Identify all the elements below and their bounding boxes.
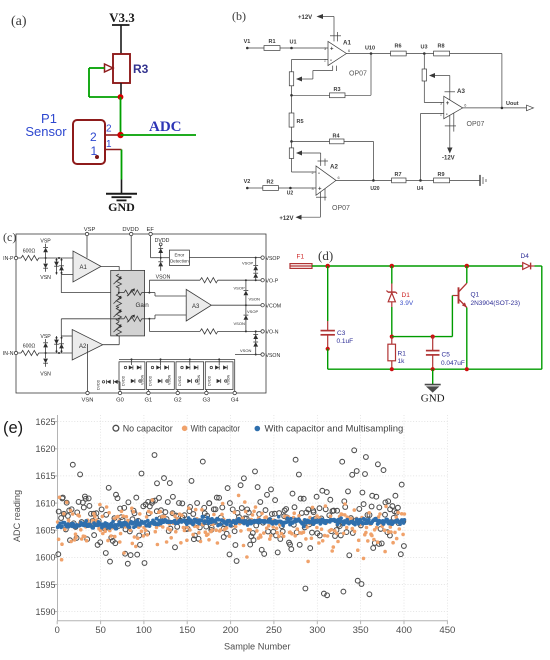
- error detection diode lower: [156, 258, 171, 281]
- wire A1 output into gain block: [101, 266, 119, 274]
- junction Q1 collector top: [465, 264, 470, 269]
- wire A2 inverting input: [292, 171, 317, 173]
- series: No capacitor (gray open circles): [56, 448, 406, 598]
- ground GND: [106, 194, 137, 214]
- svg-text:Error: Error: [175, 252, 185, 257]
- svg-text:VSN: VSN: [40, 275, 51, 281]
- svg-text:C3: C3: [337, 330, 346, 337]
- resistor R6: [391, 44, 407, 56]
- A3 power stubs to -12V: [442, 113, 456, 162]
- wire: [247, 47, 264, 49]
- wire VSP to A1: [86, 236, 88, 258]
- ESD cell box G1: [119, 359, 145, 389]
- wiper arrow of R3: [105, 64, 114, 72]
- clamp diodes VO-N to VSON: [240, 331, 258, 355]
- output Uout: [463, 101, 534, 111]
- junction node below R3: [118, 94, 124, 100]
- wire pin1 to ground: [121, 150, 123, 194]
- gain ladder resistors: [114, 274, 122, 336]
- feedback resistor R3: [290, 54, 371, 98]
- svg-text:U2: U2: [287, 191, 294, 197]
- wire A3 output to VCOM: [211, 304, 261, 306]
- svg-text:2N3904(SOT-23): 2N3904(SOT-23): [471, 300, 521, 307]
- svg-text:With capacitor and Multisampli: With capacitor and Multisampling: [265, 423, 404, 433]
- input V1: [244, 39, 251, 49]
- pin DVDD top: [122, 227, 138, 236]
- junction C3 top: [325, 264, 330, 269]
- capacitor C5: [426, 337, 465, 372]
- svg-text:2: 2: [324, 59, 326, 63]
- svg-text:G2: G2: [174, 398, 182, 404]
- svg-text:-: -: [330, 58, 332, 64]
- node U3: [420, 45, 427, 55]
- wire junction to ADC node: [120, 97, 122, 135]
- gain tap resistor upper: [119, 288, 150, 296]
- op-amp A3: [440, 88, 485, 128]
- svg-text:+12V: +12V: [279, 216, 293, 222]
- svg-text:VO-N: VO-N: [266, 330, 279, 336]
- node ADC: [117, 132, 123, 138]
- A2 power stubs to +12V: [279, 189, 326, 222]
- svg-text:ADC: ADC: [149, 119, 182, 135]
- svg-text:2: 2: [312, 171, 314, 175]
- error detection diode upper: [158, 248, 163, 258]
- VSOP rail: [189, 257, 261, 259]
- svg-text:(d): (d): [318, 248, 333, 263]
- svg-text:V2: V2: [244, 179, 251, 185]
- pin IN-N: [3, 351, 18, 357]
- pin VO-P: [261, 279, 279, 285]
- clamp diode to VSN (input N): [40, 353, 51, 378]
- wire A2 output into gain block: [103, 336, 120, 345]
- svg-text:A2: A2: [330, 164, 338, 171]
- svg-text:1625: 1625: [36, 417, 56, 427]
- wire A1 inverting input: [292, 60, 329, 96]
- svg-text:A3: A3: [457, 88, 465, 95]
- svg-text:50: 50: [95, 625, 106, 635]
- svg-text:VSON: VSON: [249, 297, 260, 302]
- svg-text:With capacitor: With capacitor: [191, 423, 240, 433]
- clamp diode to VSP (input N): [40, 334, 51, 353]
- resistor R5: [289, 95, 303, 142]
- IC outer boundary box: [16, 234, 266, 393]
- svg-text:VSOP: VSOP: [242, 261, 253, 266]
- ground right: [480, 175, 486, 186]
- svg-text:V3.3: V3.3: [109, 10, 135, 25]
- svg-text:D4: D4: [521, 253, 530, 260]
- wire DVDD to gain block: [130, 236, 132, 271]
- svg-text:Q1: Q1: [471, 291, 480, 298]
- svg-text:G0: G0: [116, 398, 124, 404]
- capacitor C3: [321, 266, 354, 369]
- pin VSP top: [84, 227, 96, 236]
- error detection block: [161, 250, 190, 265]
- power net V3.3: [109, 10, 135, 25]
- wire wiper loop: [89, 68, 118, 97]
- pin G2: [174, 390, 182, 404]
- wire V3.3 to R3: [120, 25, 122, 54]
- svg-text:R2: R2: [266, 180, 273, 186]
- resistor R1: [264, 39, 280, 50]
- amplifier A1: [73, 251, 101, 282]
- x tick labels: [55, 625, 456, 635]
- pin VSN bottom: [82, 344, 94, 404]
- svg-text:R7: R7: [394, 172, 401, 178]
- wire ADC net: [121, 134, 197, 136]
- pin 1 of P1: [91, 139, 122, 159]
- svg-text:R3: R3: [333, 87, 340, 93]
- legend: [113, 423, 403, 433]
- svg-text:Gain: Gain: [136, 302, 150, 309]
- svg-text:6: 6: [338, 176, 340, 180]
- svg-text:R1: R1: [268, 39, 275, 45]
- svg-text:IN-N: IN-N: [3, 351, 14, 357]
- diode D4: [521, 253, 535, 269]
- svg-text:-12V: -12V: [442, 156, 455, 162]
- wire bottom rail: [328, 368, 542, 370]
- zener diode D1: [387, 266, 414, 337]
- svg-text:U3: U3: [420, 45, 427, 51]
- svg-text:3.9V: 3.9V: [400, 300, 414, 307]
- svg-text:0.1uF: 0.1uF: [337, 338, 354, 345]
- svg-text:DVDD: DVDD: [207, 375, 211, 386]
- gain block: [111, 270, 150, 336]
- ESD cell box G4: [205, 359, 233, 389]
- svg-text:GND: GND: [421, 393, 445, 405]
- input V2 and resistor R2: [244, 179, 316, 197]
- svg-text:2: 2: [106, 124, 112, 135]
- svg-text:A1: A1: [80, 265, 88, 271]
- resistor R3: [113, 54, 149, 83]
- op-amp A1 power stubs: [330, 32, 341, 41]
- svg-text:A1: A1: [343, 40, 351, 47]
- resistor R9: [421, 172, 481, 183]
- resistor R1: [388, 337, 406, 372]
- svg-text:DVDD: DVDD: [155, 238, 170, 244]
- wire A2 feedback input: [61, 319, 119, 336]
- wire A1 feedback input: [61, 275, 119, 293]
- series: With capacitor and Multisampling (blue dots): [56, 515, 407, 531]
- svg-text:VSON: VSON: [234, 321, 245, 326]
- node U4: [417, 179, 424, 192]
- svg-text:VSON: VSON: [266, 353, 281, 359]
- svg-text:6: 6: [464, 104, 466, 108]
- svg-text:U10: U10: [365, 46, 375, 52]
- svg-text:3: 3: [324, 47, 326, 51]
- svg-text:R5: R5: [297, 119, 304, 125]
- wire top rail: [312, 265, 523, 267]
- svg-text:(e): (e): [3, 419, 23, 437]
- svg-text:IN-P: IN-P: [3, 256, 14, 262]
- svg-text:Sample Number: Sample Number: [224, 642, 291, 653]
- resistor 600ohm input P: [21, 249, 39, 261]
- svg-text:+12V: +12V: [298, 15, 312, 21]
- svg-text:350: 350: [353, 625, 369, 635]
- svg-text:600Ω: 600Ω: [23, 344, 36, 350]
- junction D1/R1/C5 row: [390, 335, 453, 339]
- svg-text:1k: 1k: [398, 358, 406, 365]
- svg-text:DVDD: DVDD: [97, 379, 101, 390]
- svg-text:DVDD: DVDD: [122, 227, 138, 233]
- svg-text:450: 450: [439, 625, 455, 635]
- svg-text:2: 2: [440, 113, 442, 117]
- wire R3 bottom stub: [120, 83, 122, 95]
- svg-text:600Ω: 600Ω: [23, 249, 36, 255]
- pin IN-P: [3, 256, 18, 262]
- svg-text:VSON: VSON: [226, 374, 230, 385]
- svg-text:-: -: [446, 112, 448, 118]
- pin VCOM: [261, 304, 281, 310]
- svg-text:300: 300: [309, 625, 325, 635]
- svg-text:G3: G3: [203, 398, 211, 404]
- anti-parallel diode pair A2 inputs: [54, 336, 64, 353]
- anti-parallel diode pair A1 inputs: [54, 258, 64, 275]
- svg-text:R6: R6: [394, 44, 401, 50]
- pin G0: [116, 391, 124, 403]
- svg-text:VSN: VSN: [82, 398, 94, 404]
- svg-text:1620: 1620: [36, 444, 56, 454]
- ESD cell box G3: [176, 359, 204, 389]
- svg-text:VSOP: VSOP: [234, 286, 245, 291]
- clamp diodes VO-P to VCOM: [234, 280, 260, 305]
- svg-text:Sensor: Sensor: [25, 124, 67, 139]
- svg-text:+: +: [318, 187, 322, 193]
- clamp diodes VCOM to VO-N: [234, 305, 259, 331]
- svg-text:VSOP: VSOP: [247, 309, 258, 314]
- svg-text:A2: A2: [79, 344, 87, 350]
- svg-text:VSN: VSN: [40, 372, 51, 378]
- sensor P1 box: [25, 111, 105, 164]
- svg-text:R3: R3: [133, 62, 149, 76]
- svg-text:G1: G1: [145, 398, 153, 404]
- svg-text:EF: EF: [146, 227, 154, 233]
- svg-text:R1: R1: [398, 350, 407, 357]
- pin EF top: [146, 227, 154, 236]
- wire gain to A3 upper input: [149, 293, 186, 296]
- svg-text:150: 150: [179, 625, 195, 635]
- svg-text:VSOP: VSOP: [266, 256, 281, 262]
- svg-text:(a): (a): [11, 14, 27, 29]
- resistor R8: [424, 44, 502, 108]
- svg-text:1600: 1600: [36, 553, 56, 563]
- svg-text:DVDD: DVDD: [149, 375, 153, 386]
- svg-text:No capacitor: No capacitor: [123, 423, 173, 433]
- clamp diode to VSN (input P): [40, 258, 51, 281]
- wire IN-P to A1: [18, 257, 73, 259]
- svg-text:G4: G4: [231, 398, 240, 404]
- svg-text:VSON: VSON: [141, 374, 145, 385]
- chart gridlines: [58, 415, 448, 621]
- svg-text:A3: A3: [192, 304, 200, 310]
- node U20: [336, 179, 392, 192]
- svg-text:DVDD: DVDD: [122, 375, 126, 386]
- svg-text:1595: 1595: [36, 580, 56, 590]
- svg-text:-: -: [318, 171, 320, 177]
- clamp diode to VSP (input P): [40, 239, 51, 259]
- svg-text:OP07: OP07: [332, 205, 350, 212]
- svg-text:0: 0: [55, 625, 60, 635]
- resistor 600ohm input N: [21, 344, 39, 356]
- chart axes: [54, 415, 448, 624]
- wire IN-N to A2: [18, 352, 72, 354]
- svg-text:U20: U20: [370, 186, 379, 192]
- pin G3: [203, 390, 211, 404]
- svg-text:+: +: [446, 101, 450, 107]
- feedback resistor to VO-N: [149, 319, 261, 334]
- svg-text:400: 400: [396, 625, 412, 635]
- svg-text:D1: D1: [402, 292, 411, 299]
- svg-text:VCOM: VCOM: [266, 304, 282, 310]
- svg-text:F1: F1: [297, 254, 305, 261]
- pin VSON: [261, 353, 281, 359]
- svg-text:V1: V1: [244, 39, 251, 45]
- svg-text:VSP: VSP: [84, 227, 96, 233]
- svg-text:1605: 1605: [36, 526, 56, 536]
- wire / node U1: [280, 40, 328, 50]
- svg-text:1590: 1590: [36, 607, 56, 617]
- svg-text:C5: C5: [442, 352, 451, 359]
- svg-text:1: 1: [106, 139, 112, 150]
- svg-text:2: 2: [90, 130, 97, 144]
- VSON rail bottom right: [235, 354, 261, 356]
- svg-text:U4: U4: [417, 186, 424, 192]
- svg-text:Uout: Uout: [506, 101, 519, 107]
- svg-text:R9: R9: [437, 172, 444, 178]
- svg-text:VSON: VSON: [168, 374, 172, 385]
- op-amp A2: [312, 164, 351, 213]
- pin VSOP: [261, 256, 281, 262]
- svg-text:Detection: Detection: [170, 258, 189, 263]
- svg-text:VO-P: VO-P: [266, 279, 279, 285]
- svg-text:200: 200: [223, 625, 239, 635]
- svg-text:3: 3: [312, 187, 314, 191]
- svg-text:R8: R8: [437, 44, 444, 50]
- feedback resistor to VO-P: [149, 278, 261, 293]
- svg-text:ADC reading: ADC reading: [12, 490, 22, 542]
- wire A3 inverting to U4: [421, 114, 444, 181]
- svg-text:6: 6: [348, 49, 350, 53]
- pin 2 of P1: [90, 124, 118, 145]
- wire EF to clamp chain: [151, 236, 160, 258]
- trimmer A1 offset: [289, 66, 336, 86]
- resistor R7: [392, 172, 421, 183]
- ground GND: [421, 369, 445, 404]
- power +12V top: [298, 14, 334, 41]
- op-amp A1: [324, 40, 367, 78]
- gain tap resistor lower: [119, 315, 150, 323]
- ESD diodes G0: [97, 379, 120, 391]
- svg-text:100: 100: [136, 625, 152, 635]
- amplifier A3: [186, 289, 211, 321]
- series: With capacitor (orange dots): [56, 494, 406, 564]
- svg-text:0.047uF: 0.047uF: [441, 360, 465, 367]
- svg-text:250: 250: [266, 625, 282, 635]
- pin G1: [145, 390, 153, 404]
- svg-text:(b): (b): [232, 9, 246, 23]
- svg-text:VSON: VSON: [156, 275, 171, 281]
- svg-text:GND: GND: [108, 200, 135, 214]
- wire right rail: [535, 266, 542, 369]
- ESD cell box G2: [147, 359, 175, 389]
- svg-text:1610: 1610: [36, 498, 56, 508]
- pin G4: [231, 359, 240, 403]
- resistor R4: [292, 134, 374, 181]
- svg-text:1615: 1615: [36, 471, 56, 481]
- wire output A1 / node U10: [346, 46, 390, 55]
- svg-text:VSON: VSON: [240, 348, 251, 353]
- amplifier A2: [72, 330, 103, 361]
- junction D1 top: [390, 264, 395, 269]
- wire to U3: [406, 53, 424, 55]
- trimmer A2 offset: [289, 141, 328, 172]
- pin VO-N: [261, 330, 279, 336]
- y tick labels: [36, 417, 56, 617]
- ESD cell rail: [119, 358, 235, 360]
- svg-text:(c): (c): [3, 230, 16, 244]
- svg-text:+: +: [330, 46, 334, 52]
- svg-text:VSP: VSP: [40, 334, 51, 340]
- svg-text:R4: R4: [332, 134, 340, 140]
- svg-text:DVDD: DVDD: [178, 375, 182, 386]
- transistor Q1: [452, 266, 520, 371]
- clamp diodes VSOP to VO-P: [242, 257, 258, 281]
- svg-text:OP07: OP07: [349, 71, 367, 78]
- fuse F1: [290, 254, 312, 269]
- svg-text:VSP: VSP: [40, 239, 51, 245]
- wire U3 to A3 + trimmer: [422, 54, 455, 103]
- error detection DVDD terminal: [155, 238, 170, 248]
- wire gain to A3 lower input: [149, 315, 186, 319]
- svg-text:3: 3: [440, 102, 442, 106]
- svg-text:OP07: OP07: [467, 121, 485, 128]
- svg-text:U1: U1: [289, 40, 296, 46]
- svg-text:VSON: VSON: [197, 374, 201, 385]
